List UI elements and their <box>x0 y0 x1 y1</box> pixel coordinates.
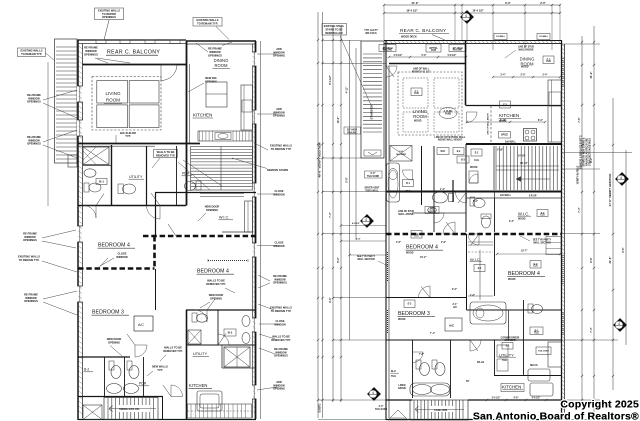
svg-text:9'-6": 9'-6" <box>329 296 332 302</box>
svg-text:WALL SECTION: WALL SECTION <box>533 242 551 245</box>
svg-text:2x6 WALL: 2x6 WALL <box>505 141 517 144</box>
svg-text:OPENINGS: OPENINGS <box>24 299 38 303</box>
left plan: right wall cavity hatch <box>253 46 256 49</box>
svg-text:4: 4 <box>620 176 622 180</box>
svg-text:1'-4": 1'-4" <box>440 188 445 191</box>
left plan: B-2 bath top wall <box>78 356 130 358</box>
svg-text:W.D.: W.D. <box>441 151 446 153</box>
left plan: outer wall - top (dining section) <box>186 40 256 42</box>
svg-text:7'-4": 7'-4" <box>578 206 581 212</box>
left plan: window dotted strip bedroom4 right <box>208 260 248 262</box>
right plan: bedroom window ext lines left <box>341 225 386 227</box>
right plan: top detail diamond marker <box>461 11 474 24</box>
svg-text:B-2: B-2 <box>391 369 396 373</box>
svg-text:TYP.: TYP. <box>125 134 131 138</box>
right plan: kitchen dim tick line <box>467 121 545 123</box>
svg-text:4'-6": 4'-6" <box>514 397 519 400</box>
svg-text:TO REMAIN TYP.: TO REMAIN TYP. <box>271 309 292 313</box>
svg-text:OPENINGS: OPENINGS <box>23 238 37 242</box>
svg-text:ROOM: ROOM <box>214 63 228 68</box>
svg-text:4: 4 <box>365 218 367 222</box>
svg-text:WOOD: WOOD <box>508 279 516 281</box>
svg-text:REINSTALLED: REINSTALLED <box>325 32 343 35</box>
svg-text:WOOD DECK: WOOD DECK <box>401 36 417 39</box>
left plan: hall wall vertical <box>155 193 157 237</box>
svg-text:WALL ABOVE: WALL ABOVE <box>398 213 414 216</box>
left plan: bottom-left corner X block <box>83 405 102 420</box>
svg-text:16'-4 1/2": 16'-4 1/2" <box>472 9 484 13</box>
left plan: utility lower X-hatch closet <box>224 347 250 367</box>
right plan: window dim row bedroom4 <box>497 253 560 255</box>
left plan: window openings in left wall <box>77 86 83 102</box>
svg-text:NEW BIG: NEW BIG <box>205 76 216 80</box>
svg-text:REAR C. BALCONY: REAR C. BALCONY <box>400 28 446 33</box>
svg-text:WALLS TO BE: WALLS TO BE <box>164 346 182 350</box>
svg-text:2'-4": 2'-4" <box>543 74 548 77</box>
svg-text:NEW DOOR: NEW DOOR <box>107 337 122 341</box>
svg-text:W.I.C.: W.I.C. <box>470 257 481 262</box>
svg-text:UTILITY: UTILITY <box>129 175 143 179</box>
right plan: stair landing arrow <box>364 150 381 156</box>
svg-text:47'-6" VERIFY ADDITION: 47'-6" VERIFY ADDITION <box>608 174 612 207</box>
right plan: B-1 tile box <box>530 327 543 335</box>
right plan: closet shelves right wall <box>546 237 561 255</box>
svg-text:CLG: CLG <box>414 236 419 238</box>
right plan: balcony label leader <box>432 35 447 42</box>
left plan: B-1 label box (mid) <box>224 329 236 336</box>
left plan: bath B-1 walls <box>111 145 113 206</box>
svg-text:15'-2": 15'-2" <box>420 256 427 259</box>
left plan: living room ceiling dashed rect <box>92 77 161 131</box>
right plan: kitchen spice box <box>499 132 511 139</box>
svg-text:UTILITY: UTILITY <box>193 352 208 356</box>
right plan: B-1 TILE box label <box>403 180 414 187</box>
svg-text:3'-4": 3'-4" <box>509 220 514 223</box>
right plan: bath cluster lower - tub <box>467 309 563 311</box>
svg-text:San Antonio Board of Realtors®: San Antonio Board of Realtors® <box>473 411 639 421</box>
svg-text:4'-8": 4'-8" <box>396 241 401 244</box>
svg-text:CLG: CLG <box>414 93 419 95</box>
svg-text:CUB: CUB <box>431 50 436 52</box>
right plan: balcony dim row <box>389 56 466 58</box>
left plan: landing wall below stairs <box>155 192 256 194</box>
svg-text:2'-0": 2'-0" <box>521 75 526 77</box>
left plan: stair leader diagonals <box>178 162 210 190</box>
svg-text:31'-9": 31'-9" <box>411 1 419 5</box>
left plan: bottom hall wall <box>78 396 163 398</box>
svg-text:WINDOW: WINDOW <box>273 244 285 248</box>
svg-text:2x6 WALL: 2x6 WALL <box>500 194 512 197</box>
right plan: door leaf diagonals <box>446 222 455 234</box>
svg-text:WOOD: WOOD <box>414 121 422 123</box>
svg-text:3'-6 1/2": 3'-6 1/2" <box>532 398 541 400</box>
svg-text:RE-FRAME: RE-FRAME <box>84 46 98 50</box>
svg-text:W.I.C.: W.I.C. <box>219 216 229 220</box>
svg-text:2'-4": 2'-4" <box>501 74 506 77</box>
svg-text:REMOVED TYP.: REMOVED TYP. <box>206 282 226 286</box>
left plan: mid bath sink ovals right <box>242 316 250 327</box>
svg-text:RAILING: RAILING <box>347 132 357 135</box>
left plan: living room ceiling grid cells <box>97 81 128 103</box>
svg-text:2'-8": 2'-8" <box>346 176 349 182</box>
right plan: hall bath below stairs - sink <box>473 199 485 208</box>
svg-text:RE-FRAME: RE-FRAME <box>208 47 222 51</box>
right plan: mid bath shower top-left <box>390 146 412 162</box>
svg-text:16'-10": 16'-10" <box>520 162 528 165</box>
svg-text:5'-0": 5'-0" <box>473 201 478 203</box>
svg-text:BEDROOM 3: BEDROOM 3 <box>92 310 124 316</box>
left plan: outer wall - bottom <box>78 419 256 421</box>
left plan: party wall heavy dashed (upper) <box>143 235 256 238</box>
svg-text:WINDOW: WINDOW <box>85 49 97 53</box>
right plan: kitchen wall-above dashed line <box>490 106 492 143</box>
svg-text:WINDOW: WINDOW <box>273 192 285 196</box>
left plan: B-1 toilet <box>84 183 89 192</box>
svg-text:CLG: CLG <box>533 266 538 268</box>
svg-text:RAILING: RAILING <box>453 48 463 51</box>
svg-text:STAIRS DN: STAIRS DN <box>370 105 374 120</box>
svg-text:WOOD: WOOD <box>518 219 526 221</box>
svg-text:CLG: CLG <box>540 214 545 216</box>
svg-text:NEW DOOR: NEW DOOR <box>209 293 224 297</box>
left plan: B-2 bath partition <box>104 357 106 397</box>
svg-text:LINE OF STUD PURR. WALL: LINE OF STUD PURR. WALL <box>435 136 466 139</box>
svg-text:RAILING: RAILING <box>383 48 393 51</box>
svg-text:A/C: A/C <box>453 306 457 309</box>
left plan: far-left annotation box - existing walls remain (top) <box>18 48 46 57</box>
right plan: right detail diamond markers <box>616 173 629 186</box>
right plan: stair arrow <box>516 178 550 180</box>
right plan: detail diamond (party wall upper) <box>361 215 374 228</box>
svg-text:REMOVED TYP.: REMOVED TYP. <box>271 338 291 342</box>
svg-text:BEDROOM 4: BEDROOM 4 <box>406 245 438 251</box>
left plan: vertical wall x=186 lower <box>186 310 188 419</box>
svg-text:STAIRS W/ NEW STAIRS &: STAIRS W/ NEW STAIRS & <box>583 137 586 166</box>
right plan: left dimension line cluster <box>317 12 319 418</box>
right plan: ceiling fans oval <box>439 108 457 119</box>
right plan: dining dim row <box>493 76 560 78</box>
svg-text:LINE OF STUD: LINE OF STUD <box>398 211 414 213</box>
svg-text:LINEN: LINEN <box>429 209 436 211</box>
right plan: closet shelf lines <box>468 241 493 243</box>
svg-text:OPENINGS: OPENINGS <box>102 15 116 19</box>
svg-text:9'-6": 9'-6" <box>622 246 625 252</box>
svg-text:WOOD: WOOD <box>470 167 478 169</box>
left plan: window openings in right wall <box>252 52 257 66</box>
right plan: hall strip labels beside stairs <box>471 149 482 156</box>
right plan: kitchen counters right wall <box>548 80 562 142</box>
left plan: wall below utility X closet <box>222 367 256 369</box>
svg-text:ABOVE: ABOVE <box>398 387 407 390</box>
svg-text:VERIFY IN FIELD: VERIFY IN FIELD <box>578 165 580 184</box>
left plan: bottom staircase <box>104 398 158 420</box>
svg-text:TYP.: TYP. <box>157 368 163 372</box>
svg-text:31'-9": 31'-9" <box>589 71 593 79</box>
svg-text:SHLVS: SHLVS <box>530 365 538 367</box>
svg-text:2'-1": 2'-1" <box>453 304 458 306</box>
right plan: outer wall right (hatched) <box>561 41 563 421</box>
svg-text:4: 4 <box>372 391 374 395</box>
svg-text:WALL SECTION: WALL SECTION <box>357 258 375 261</box>
svg-text:ABOVE WALL HEIGHT: ABOVE WALL HEIGHT <box>438 139 463 142</box>
svg-text:7'-6": 7'-6" <box>578 116 581 122</box>
right plan: mid bath toilet horizontal <box>433 192 448 203</box>
left plan: outer wall - right <box>255 41 257 419</box>
svg-text:7'-4": 7'-4" <box>590 326 593 332</box>
svg-text:4'-11": 4'-11" <box>346 86 349 93</box>
left plan: far-left leader spine line <box>47 62 49 206</box>
right plan: horizontal dim connectors left <box>322 40 361 42</box>
svg-text:KITCHEN: KITCHEN <box>189 383 207 388</box>
svg-text:KITCHEN: KITCHEN <box>499 113 519 118</box>
svg-text:WOOD: WOOD <box>521 67 529 69</box>
right plan: detail diamond lower left <box>368 388 381 401</box>
svg-text:OPENING: OPENING <box>108 340 120 344</box>
svg-text:WALLS TO BE: WALLS TO BE <box>207 279 225 283</box>
right plan: living room ceiling dashed rect <box>398 72 462 135</box>
right plan: top dimension lines <box>384 4 560 6</box>
svg-text:48'-6" VERIFY ADDITION: 48'-6" VERIFY ADDITION <box>318 143 322 178</box>
svg-text:WOOD: WOOD <box>406 253 414 255</box>
right plan: railing label 26 high box <box>344 127 361 134</box>
svg-text:SWING GAS VAL: SWING GAS VAL <box>119 407 140 411</box>
right plan: utility walls <box>494 340 496 376</box>
right plan: window strips on right wall <box>562 58 564 88</box>
left plan: roof overhang line right of right wall <box>260 41 262 419</box>
svg-text:OPENINGS: OPENINGS <box>27 142 41 146</box>
right plan: horizontal dim connectors right <box>562 152 632 154</box>
svg-text:8'-4 1/2": 8'-4 1/2" <box>329 74 332 84</box>
svg-text:8 R UP: 8 R UP <box>529 196 537 198</box>
right plan: living ceiling dashed squares <box>403 78 428 108</box>
right plan: right dimension line cluster <box>581 36 583 415</box>
right plan: kitchen hall door arc <box>467 112 478 123</box>
right plan: mid bath extra door arcs <box>434 213 444 223</box>
left plan: floor divider wall <box>78 143 200 145</box>
right plan: WD and linen boxes <box>437 148 449 155</box>
svg-text:4: 4 <box>618 322 620 326</box>
left plan: top annotation box - existing walls to remain typ <box>193 18 222 27</box>
svg-text:5'-10": 5'-10" <box>500 120 506 122</box>
svg-text:8'-0": 8'-0" <box>538 120 543 122</box>
svg-text:W.I.C.: W.I.C. <box>518 212 529 217</box>
right plan: bath lower walls <box>523 300 525 340</box>
left plan: walls-to-be-removed annotation box (mid) <box>154 150 178 158</box>
right plan: WIC upper (right panel) <box>494 198 496 232</box>
svg-text:LINE OF WALL: LINE OF WALL <box>413 68 430 71</box>
right plan: utility lower labels <box>502 343 513 350</box>
right plan: bedroom3 divider wall <box>386 297 467 299</box>
left plan: door arcs various <box>147 206 161 220</box>
left plan: WIC closet upper strip <box>245 201 253 232</box>
svg-text:5'-8 1/2": 5'-8 1/2" <box>448 55 457 57</box>
left plan: stair lower landing band <box>200 193 244 195</box>
svg-text:8'-2": 8'-2" <box>337 256 340 262</box>
right plan: bedroom3 labels <box>404 300 415 308</box>
svg-text:ROOM: ROOM <box>106 98 120 103</box>
svg-text:WINDOW: WINDOW <box>116 255 128 259</box>
svg-text:SEE TYP. PARTY: SEE TYP. PARTY <box>357 255 376 258</box>
svg-text:9'-2": 9'-2" <box>452 289 457 291</box>
svg-text:15'-7": 15'-7" <box>521 250 528 253</box>
svg-text:BEDROOM 4: BEDROOM 4 <box>508 271 540 277</box>
svg-text:2'-8 1/2": 2'-8 1/2" <box>394 55 403 57</box>
svg-text:OPENINGS: OPENINGS <box>27 100 41 104</box>
left plan: outer wall - left <box>77 40 79 421</box>
right plan: outer wall bottom <box>386 419 562 421</box>
svg-text:CLG: CLG <box>474 160 479 162</box>
left plan: left wall cavity hatch <box>79 46 83 49</box>
left plan: kitchen upper island <box>206 82 227 107</box>
svg-text:ROOM: ROOM <box>413 114 427 119</box>
svg-text:PDR: PDR <box>182 172 190 176</box>
svg-text:A/C: A/C <box>449 324 455 328</box>
left plan: stair enclosure foot block <box>68 155 77 167</box>
right plan: railing boxed labels <box>379 45 396 52</box>
right plan: balcony inner wall <box>389 63 466 65</box>
svg-text:CORNER DRESR: CORNER DRESR <box>501 338 520 340</box>
left plan: party wall heavy dashed vertical <box>153 236 156 269</box>
left plan: PDR toilet <box>196 181 201 190</box>
right plan: A/C lower <box>445 318 462 331</box>
svg-text:CLG: CLG <box>546 61 551 63</box>
left plan: B-2 toilets <box>109 361 114 370</box>
right plan: corner X gable lower left <box>388 410 408 420</box>
svg-text:1'-6": 1'-6" <box>470 295 475 297</box>
left plan: utility room walls <box>146 146 148 206</box>
right plan: center stair rails <box>496 165 559 167</box>
right plan: window strip on left wall <box>387 252 389 282</box>
right plan: kitchen labels <box>500 101 511 108</box>
svg-text:B-1: B-1 <box>228 331 233 335</box>
right plan: kitchen lower islands <box>528 369 550 381</box>
left plan: kitchen lower counter band <box>188 404 252 418</box>
svg-text:CASE OPN: CASE OPN <box>434 409 447 412</box>
left plan: exterior stair enclosure (left) <box>55 39 78 163</box>
svg-text:RAILINGS AS REQ'D SEE: RAILINGS AS REQ'D SEE <box>586 138 589 166</box>
svg-text:KITCHEN: KITCHEN <box>502 385 521 390</box>
svg-text:DRYER VENT: DRYER VENT <box>365 188 380 190</box>
right plan: bedroom4 upper labels <box>411 231 422 239</box>
left plan: door leaf diagonals <box>151 193 160 206</box>
svg-text:OPENING: OPENING <box>206 208 218 212</box>
svg-text:SEE TYP. PARTY: SEE TYP. PARTY <box>533 239 552 242</box>
left plan: utility toilet <box>118 184 124 194</box>
right plan: hall bath below stairs - toilet <box>482 216 491 228</box>
right plan: center stair top wall <box>466 143 562 145</box>
left plan: kitchen counter band with sink <box>198 131 252 141</box>
svg-text:1/2 WALL: 1/2 WALL <box>539 35 549 38</box>
right plan: kitchen divider wall <box>466 105 563 107</box>
svg-text:BEDROOM 4: BEDROOM 4 <box>197 269 229 275</box>
svg-text:WINDOW: WINDOW <box>209 50 221 54</box>
svg-text:WD COLS: WD COLS <box>365 32 377 35</box>
svg-text:PDR: PDR <box>139 382 147 386</box>
right plan: bottom wall segments <box>386 399 412 401</box>
svg-text:E-2: E-2 <box>408 303 412 306</box>
left plan: party wall heavy dashed (lower) <box>78 267 155 270</box>
svg-text:2'-0": 2'-0" <box>540 1 546 5</box>
svg-text:2'-8": 2'-8" <box>441 242 446 244</box>
right plan: center stairs <box>495 146 497 190</box>
svg-text:16'-4 1/2": 16'-4 1/2" <box>406 9 418 13</box>
svg-text:KITCHEN: KITCHEN <box>193 113 212 118</box>
svg-text:ABOVE 8'-11 1/2": ABOVE 8'-11 1/2" <box>412 70 431 73</box>
svg-text:WOOD: WOOD <box>398 319 406 321</box>
right plan: washer dryer boxes <box>497 345 508 357</box>
svg-text:TILE: TILE <box>391 376 396 378</box>
right plan: living/dining divider wall <box>465 41 467 106</box>
svg-text:4'-8 1/2": 4'-8 1/2" <box>352 222 360 225</box>
svg-text:7'-1": 7'-1" <box>430 333 435 335</box>
svg-text:OPENINGS: OPENINGS <box>274 354 288 358</box>
right plan: mid bath sink cab <box>425 207 439 214</box>
svg-text:OPENINGS: OPENINGS <box>208 53 222 57</box>
svg-text:TILE SURR: TILE SURR <box>367 176 379 178</box>
right plan: half wall boxes above dining <box>494 34 507 40</box>
right plan: mid bath wall x421 <box>421 146 423 205</box>
svg-text:TO REMAIN TYP.: TO REMAIN TYP. <box>197 21 218 25</box>
left plan: window tick marks on top wall <box>96 40 106 44</box>
svg-text:9'-6": 9'-6" <box>589 256 593 262</box>
svg-text:FANS: FANS <box>445 113 452 116</box>
svg-text:6'-0": 6'-0" <box>371 173 376 175</box>
svg-text:TILE SURR: TILE SURR <box>375 409 387 411</box>
svg-text:TILE: TILE <box>502 360 507 362</box>
svg-text:OPENING: OPENING <box>205 79 217 83</box>
svg-text:7'-4": 7'-4" <box>329 211 332 217</box>
svg-text:TO REMAIN TYP.: TO REMAIN TYP. <box>19 258 40 262</box>
svg-text:OPENING: OPENING <box>210 296 222 300</box>
svg-text:4'-0": 4'-0" <box>379 405 384 408</box>
right plan: dining window verticals <box>492 41 494 51</box>
right plan: WIC lower closet rod <box>479 250 481 300</box>
svg-text:LINEN: LINEN <box>399 385 406 387</box>
left plan: mid bath walls <box>217 310 219 345</box>
right plan: left dim ticks <box>317 39 319 41</box>
svg-text:10'-10": 10'-10" <box>518 156 526 158</box>
svg-text:3'-10": 3'-10" <box>497 150 503 152</box>
left plan: B-1 sink <box>84 169 96 177</box>
svg-text:16'-0": 16'-0" <box>337 116 340 124</box>
right plan: mid bath tub <box>387 163 400 202</box>
svg-text:2'-4": 2'-4" <box>356 238 360 241</box>
svg-text:3'-0 1/2": 3'-0 1/2" <box>492 398 501 400</box>
svg-text:BEDROOM 3: BEDROOM 3 <box>398 311 430 317</box>
right plan: party wall heavy dashed <box>386 233 562 236</box>
svg-text:TO REMAIN TYP.: TO REMAIN TYP. <box>21 52 42 56</box>
right plan: center stair bottom wall <box>386 191 562 193</box>
left plan: shower with X <box>83 147 109 165</box>
left plan: kitchen counters along right wall <box>241 85 253 130</box>
svg-text:26" HIGH: 26" HIGH <box>347 130 357 132</box>
svg-text:WALL ABOVE: WALL ABOVE <box>518 48 534 51</box>
right plan: bottom stairs (right panel) <box>410 400 468 420</box>
svg-text:TILE: TILE <box>534 332 539 334</box>
right plan: interior door arcs <box>443 222 455 234</box>
right plan: kitchen range with burners <box>524 129 537 142</box>
svg-text:B-2: B-2 <box>84 368 89 372</box>
right plan: E-2 CLG box (living) <box>411 88 422 96</box>
svg-text:REMOVE STAIRS: REMOVE STAIRS <box>267 168 289 172</box>
svg-text:31'-6": 31'-6" <box>608 256 612 264</box>
right plan: B-2 bath lower left <box>412 340 414 398</box>
svg-text:SHOWER: SHOWER <box>396 154 406 156</box>
right plan: stair wing enclosure <box>361 41 384 158</box>
right plan: outer wall top (hatched) <box>384 40 562 42</box>
right plan: B-2 double vanity <box>410 383 450 396</box>
right plan: B-2 toilets <box>416 360 421 369</box>
